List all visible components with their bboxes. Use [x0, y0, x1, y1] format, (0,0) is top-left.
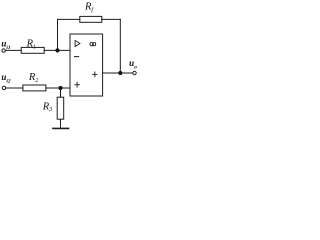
- wire: node to R3: [60, 88, 62, 97]
- node C: output junction: [118, 71, 122, 75]
- node A: inverting input junction: [55, 48, 59, 52]
- resistor R1: [21, 47, 44, 53]
- svg-text:uo: uo: [129, 58, 137, 70]
- op-amp U1: [70, 34, 103, 96]
- wire: output: [103, 72, 133, 74]
- ground: [53, 127, 69, 129]
- resistor Rf: [80, 16, 102, 22]
- wire: feedback left vertical: [57, 19, 59, 50]
- svg-text:Rf: Rf: [84, 2, 94, 14]
- svg-text:R2: R2: [28, 72, 38, 84]
- wire: R3 to ground: [60, 119, 62, 128]
- op-amp gain symbol infinity: [90, 43, 96, 46]
- wire: feedback top left: [58, 18, 80, 20]
- wire: input ui1 to R1: [6, 49, 22, 51]
- wire: R2 to non-inverting input: [46, 87, 70, 89]
- svg-text:R1: R1: [26, 39, 36, 51]
- wire: feedback right vertical: [119, 19, 121, 73]
- terminal ui1: [2, 49, 5, 52]
- terminal ui2: [2, 86, 5, 89]
- wire: R1 to inverting input: [44, 49, 70, 51]
- resistor R2: [23, 85, 46, 91]
- svg-text:ui2: ui2: [1, 72, 11, 84]
- resistor R3: [57, 97, 64, 119]
- terminal uo: [133, 71, 136, 74]
- node B: non-inverting input junction: [58, 86, 62, 90]
- svg-text:R3: R3: [42, 101, 52, 113]
- wire: feedback top right: [102, 18, 121, 20]
- wire: input ui2 to R2: [6, 87, 23, 89]
